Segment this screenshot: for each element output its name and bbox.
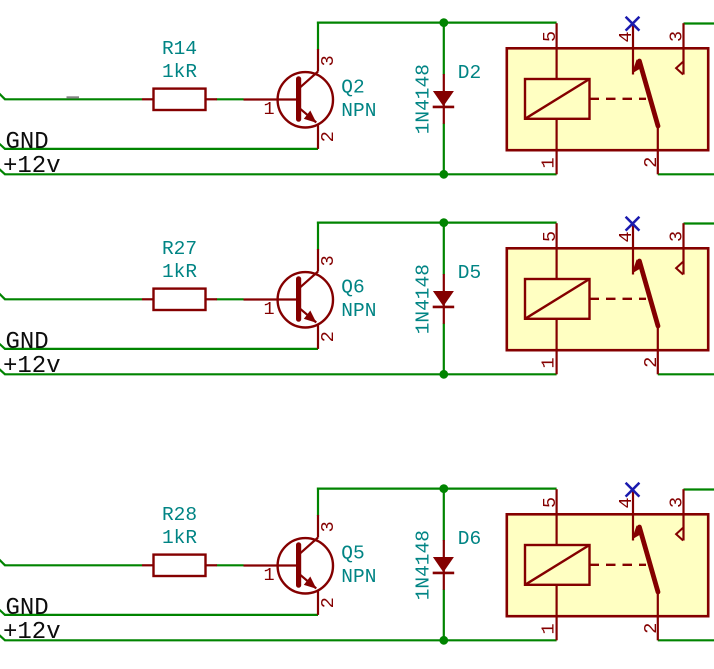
svg-text:2: 2: [641, 623, 662, 634]
svg-text:Q2: Q2: [341, 77, 364, 99]
svg-text:D5: D5: [458, 262, 481, 284]
svg-text:2: 2: [318, 331, 339, 342]
wire relay pin2 to right: [658, 173, 714, 175]
svg-text:D2: D2: [458, 62, 481, 84]
wire: [4, 564, 142, 566]
wire +12v rail: [4, 639, 556, 641]
wire +12v rail: [4, 373, 556, 375]
wire: [0, 143, 5, 149]
wire relay pin3 to right: [684, 22, 714, 24]
svg-text:GND: GND: [6, 129, 49, 156]
wire diode top: [443, 489, 445, 541]
svg-text:4: 4: [616, 231, 637, 242]
svg-text:3: 3: [318, 55, 339, 66]
svg-text:5: 5: [540, 497, 561, 508]
relay pin 2: [657, 126, 659, 174]
junction: [439, 218, 448, 227]
svg-text:+12v: +12v: [3, 619, 61, 646]
svg-text:1N4148: 1N4148: [412, 264, 434, 334]
diode D2: [433, 74, 455, 124]
svg-text:NPN: NPN: [341, 300, 376, 322]
relay pin 4: [632, 25, 634, 75]
relay linkage (dashed): [590, 564, 647, 566]
svg-text:1kR: 1kR: [162, 261, 197, 283]
wire relay pin3 to right: [684, 222, 714, 224]
svg-text:3: 3: [667, 231, 688, 242]
wire: [0, 609, 5, 615]
relay K3 body: [507, 514, 708, 616]
relay pin 5: [555, 23, 557, 79]
wire: [0, 93, 5, 99]
junction: [439, 18, 448, 27]
relay pin 5: [555, 489, 557, 545]
junction: [439, 484, 448, 493]
wire: [0, 559, 5, 565]
svg-text:2: 2: [641, 157, 662, 168]
relay coil: [525, 79, 590, 119]
wire relay pin2 to right: [658, 639, 714, 641]
svg-text:3: 3: [318, 521, 339, 532]
relay switch arm: [632, 526, 658, 593]
net stub (grey): [67, 96, 80, 98]
wire: [0, 293, 5, 299]
svg-text:1: 1: [539, 357, 560, 368]
transistor Q5: [244, 515, 333, 615]
wire: [217, 564, 244, 566]
wire top rail: [317, 488, 557, 490]
relay pin 3: [682, 489, 684, 540]
relay switch arm: [632, 260, 658, 327]
svg-text:2: 2: [641, 357, 662, 368]
resistor R27: [142, 289, 217, 310]
relay pin 4: [632, 491, 634, 541]
junction: [439, 636, 448, 645]
svg-text:3: 3: [667, 31, 688, 42]
diode D6: [433, 540, 455, 590]
wire: [4, 98, 142, 100]
relay contact (pin3 triangle): [676, 62, 683, 75]
relay linkage (dashed): [590, 98, 647, 100]
wire: [0, 169, 5, 175]
svg-text:1: 1: [263, 99, 274, 120]
wire top rail: [317, 222, 557, 224]
svg-text:1N4148: 1N4148: [412, 530, 434, 600]
svg-text:GND: GND: [6, 595, 49, 622]
wire collector to top: [317, 22, 319, 50]
transistor Q6: [244, 249, 333, 349]
wire GND rail: [4, 614, 318, 616]
relay coil: [525, 279, 590, 319]
relay switch arm: [632, 60, 658, 127]
wire: [0, 635, 5, 641]
svg-text:NPN: NPN: [341, 566, 376, 588]
svg-text:+12v: +12v: [3, 353, 61, 380]
wire collector to top: [317, 488, 319, 516]
svg-text:R14: R14: [162, 38, 197, 60]
relay pin 1: [555, 119, 557, 175]
svg-text:1: 1: [263, 565, 274, 586]
transistor Q2: [244, 49, 333, 149]
wire +12v rail: [4, 173, 556, 175]
relay pin 4: [632, 225, 634, 275]
svg-text:3: 3: [667, 497, 688, 508]
svg-text:1: 1: [539, 157, 560, 168]
wire: [0, 343, 5, 349]
resistor R28: [142, 555, 217, 576]
relay pin 2: [657, 592, 659, 640]
svg-text:3: 3: [318, 255, 339, 266]
svg-text:R27: R27: [162, 238, 197, 260]
svg-text:4: 4: [616, 497, 637, 508]
resistor R14: [142, 89, 217, 110]
no-connect X on pin 4: [626, 217, 640, 231]
svg-text:NPN: NPN: [341, 100, 376, 122]
svg-text:Q6: Q6: [341, 277, 364, 299]
svg-text:1N4148: 1N4148: [412, 64, 434, 134]
wire diode bottom: [443, 323, 445, 374]
relay contact (pin3 triangle): [676, 528, 683, 541]
relay contact (pin3 triangle): [676, 262, 683, 275]
relay pin 3: [682, 23, 684, 74]
relay pin 1: [555, 585, 557, 641]
relay pin 2: [657, 326, 659, 374]
svg-text:Q5: Q5: [341, 543, 364, 565]
svg-text:1: 1: [263, 299, 274, 320]
relay coil: [525, 545, 590, 585]
wire top rail: [317, 22, 557, 24]
wire relay pin3 to right: [684, 488, 714, 490]
svg-text:5: 5: [540, 31, 561, 42]
wire: [4, 298, 142, 300]
relay pin 1: [555, 319, 557, 375]
wire GND rail: [4, 148, 318, 150]
wire diode bottom: [443, 123, 445, 174]
svg-text:GND: GND: [6, 329, 49, 356]
svg-text:R28: R28: [162, 504, 197, 526]
svg-text:2: 2: [318, 597, 339, 608]
relay pin 5: [555, 223, 557, 279]
svg-text:1: 1: [539, 623, 560, 634]
wire: [217, 298, 244, 300]
svg-text:+12v: +12v: [3, 153, 61, 180]
no-connect X on pin 4: [626, 483, 640, 497]
diode D5: [433, 274, 455, 324]
svg-text:5: 5: [540, 231, 561, 242]
svg-text:4: 4: [616, 31, 637, 42]
svg-text:2: 2: [318, 131, 339, 142]
relay pin 3: [682, 223, 684, 274]
relay K2 body: [507, 248, 708, 350]
wire diode top: [443, 223, 445, 275]
wire diode bottom: [443, 589, 445, 640]
svg-text:1kR: 1kR: [162, 527, 197, 549]
wire collector to top: [317, 222, 319, 250]
wire: [0, 369, 5, 375]
svg-text:D6: D6: [458, 528, 481, 550]
junction: [439, 370, 448, 379]
wire diode top: [443, 23, 445, 75]
relay K1 body: [507, 48, 708, 150]
relay linkage (dashed): [590, 298, 647, 300]
junction: [439, 170, 448, 179]
wire relay pin2 to right: [658, 373, 714, 375]
no-connect X on pin 4: [626, 17, 640, 31]
wire: [217, 98, 244, 100]
wire GND rail: [4, 348, 318, 350]
svg-text:1kR: 1kR: [162, 61, 197, 83]
